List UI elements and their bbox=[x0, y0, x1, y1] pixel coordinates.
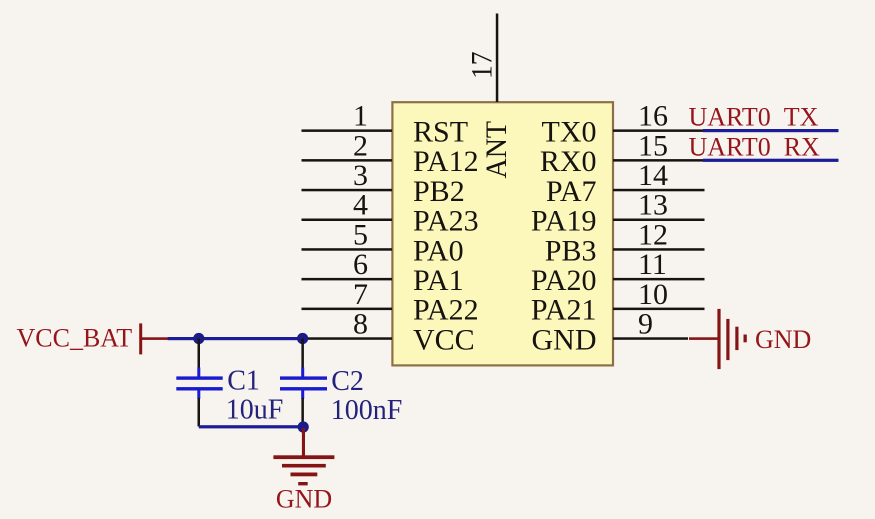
pin 10 wire bbox=[613, 308, 705, 311]
capacitor C2 bottom plate bbox=[280, 387, 327, 390]
svg-text:PA1: PA1 bbox=[413, 264, 464, 297]
svg-text:RST: RST bbox=[413, 116, 468, 149]
svg-text:9: 9 bbox=[638, 308, 653, 341]
svg-text:7: 7 bbox=[353, 278, 368, 311]
svg-text:1: 1 bbox=[353, 100, 368, 133]
pin 3 wire bbox=[302, 189, 393, 192]
svg-text:15: 15 bbox=[638, 129, 668, 162]
pin 6 wire bbox=[302, 278, 393, 281]
port wire VCC_BAT (red) bbox=[141, 337, 168, 340]
pin 15 wire bbox=[613, 159, 705, 162]
pin 11 wire bbox=[613, 278, 705, 281]
net wire UART0_TX (blue) bbox=[703, 129, 839, 132]
pin 9 wire bbox=[613, 337, 688, 340]
pin 1 wire bbox=[302, 129, 393, 132]
svg-text:RX0: RX0 bbox=[540, 145, 597, 178]
svg-text:11: 11 bbox=[638, 248, 667, 281]
ground symbol bottom bar1 bbox=[273, 455, 334, 459]
svg-text:PB2: PB2 bbox=[413, 175, 465, 208]
C1 bottom lead (blue) bbox=[197, 390, 200, 399]
svg-text:3: 3 bbox=[353, 159, 368, 192]
ground symbol right bar3 bbox=[735, 327, 738, 350]
svg-text:GND: GND bbox=[532, 323, 597, 356]
ground symbol right bar1 bbox=[717, 309, 720, 369]
ground symbol right bar2 bbox=[726, 319, 729, 360]
ground symbol bottom bar2 bbox=[282, 464, 326, 468]
svg-text:PA12: PA12 bbox=[413, 145, 479, 178]
svg-text:PA20: PA20 bbox=[531, 264, 597, 297]
C1 top lead (blue) bbox=[197, 368, 200, 378]
svg-text:UART0 TX: UART0 TX bbox=[689, 102, 819, 131]
svg-text:PA19: PA19 bbox=[531, 205, 597, 238]
ground symbol right bar4 bbox=[744, 335, 747, 343]
C1 bottom lead (black) bbox=[198, 398, 201, 427]
pin 7 wire bbox=[302, 308, 393, 311]
svg-text:PA7: PA7 bbox=[546, 175, 597, 208]
svg-text:PB3: PB3 bbox=[545, 234, 597, 267]
svg-text:C1: C1 bbox=[227, 365, 260, 396]
svg-text:PA21: PA21 bbox=[531, 294, 597, 327]
port VCC_BAT tick bbox=[139, 323, 142, 354]
svg-text:UART0 RX: UART0 RX bbox=[689, 133, 821, 162]
net wire UART0_RX (blue) bbox=[703, 159, 839, 162]
svg-text:12: 12 bbox=[638, 218, 668, 251]
pin 17 wire (ANT, top) bbox=[496, 14, 499, 103]
wire VCC net (blue horizontal) bbox=[168, 337, 303, 340]
C2 top lead (blue) bbox=[301, 368, 304, 378]
svg-text:C2: C2 bbox=[331, 366, 364, 397]
capacitor C1 top plate bbox=[176, 376, 222, 379]
pin 4 wire bbox=[302, 219, 393, 222]
ground stub wire (red, bottom) bbox=[302, 428, 305, 456]
svg-text:VCC: VCC bbox=[413, 323, 475, 356]
pin 2 wire bbox=[302, 159, 393, 162]
svg-text:GND: GND bbox=[276, 485, 332, 514]
svg-text:GND: GND bbox=[755, 325, 811, 354]
wire pin9 to ground (red) bbox=[689, 337, 718, 340]
svg-text:4: 4 bbox=[353, 189, 368, 222]
svg-text:TX0: TX0 bbox=[542, 116, 597, 149]
C2 top lead (black) bbox=[301, 339, 304, 369]
junction node A (C1 top) bbox=[193, 333, 204, 344]
svg-text:17: 17 bbox=[466, 52, 499, 80]
ground symbol bottom bar4 bbox=[298, 482, 308, 485]
svg-text:ANT: ANT bbox=[480, 121, 513, 179]
svg-text:2: 2 bbox=[353, 129, 368, 162]
C2 bottom lead (blue) bbox=[301, 390, 304, 399]
svg-text:5: 5 bbox=[353, 218, 368, 251]
pin 12 wire bbox=[613, 248, 705, 251]
capacitor C1 bottom plate bbox=[176, 387, 222, 390]
svg-text:10uF: 10uF bbox=[226, 395, 284, 426]
IC body U1 bbox=[392, 102, 613, 365]
junction node B (C2 top) bbox=[297, 333, 308, 344]
wire cap bottom (blue horizontal) bbox=[199, 425, 304, 428]
svg-text:16: 16 bbox=[638, 100, 668, 133]
svg-text:14: 14 bbox=[638, 159, 668, 192]
svg-text:PA23: PA23 bbox=[413, 205, 479, 238]
pin 14 wire bbox=[613, 189, 705, 192]
capacitor C2 top plate bbox=[280, 376, 327, 379]
svg-text:PA0: PA0 bbox=[413, 234, 464, 267]
svg-text:100nF: 100nF bbox=[331, 395, 403, 426]
pin 13 wire bbox=[613, 219, 705, 222]
svg-text:13: 13 bbox=[638, 189, 668, 222]
pin 16 wire bbox=[613, 129, 705, 132]
svg-text:8: 8 bbox=[353, 308, 368, 341]
pin 5 wire bbox=[302, 248, 393, 251]
svg-text:VCC_BAT: VCC_BAT bbox=[17, 324, 133, 353]
C2 bottom lead (black) bbox=[301, 398, 304, 427]
ground symbol bottom bar3 bbox=[291, 473, 318, 477]
svg-text:PA22: PA22 bbox=[413, 294, 479, 327]
pin 8 wire bbox=[302, 337, 393, 340]
svg-text:10: 10 bbox=[638, 278, 668, 311]
C1 top lead (black) bbox=[198, 339, 201, 369]
junction node C (ground) bbox=[298, 421, 309, 432]
svg-text:6: 6 bbox=[353, 248, 368, 281]
